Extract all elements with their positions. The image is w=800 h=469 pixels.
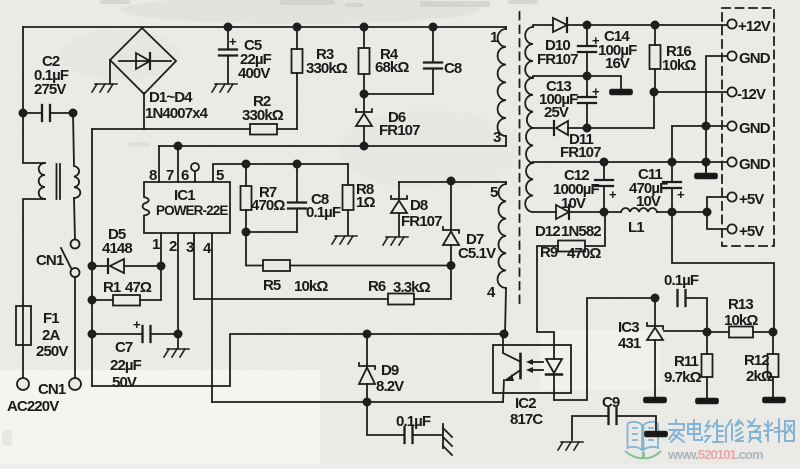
capacitor C14 <box>578 25 637 76</box>
capacitor C7 <box>88 317 181 391</box>
IC IC1 POWER-22E <box>143 182 230 233</box>
wire winding pin5 line <box>399 177 506 184</box>
char liao <box>764 419 784 442</box>
diode D5 <box>88 226 164 273</box>
capacitor C5 <box>219 23 272 84</box>
wire left AC line lower <box>23 199 45 378</box>
watermark logo <box>625 419 794 462</box>
diode D11 <box>533 121 654 161</box>
char wei <box>705 420 723 442</box>
resistor R6 <box>194 266 451 305</box>
connector CN1 AC220V terminals <box>7 378 81 415</box>
ground below C7 <box>164 334 189 357</box>
zener D7 <box>443 181 496 269</box>
paper noise <box>2 0 538 446</box>
wire R2 line left <box>92 128 250 130</box>
ground bar below IC3 <box>644 398 666 403</box>
ground bar 12V common <box>610 90 632 95</box>
resistor R1 <box>88 279 161 306</box>
ground below bridge <box>92 60 117 92</box>
wire 12V common tap <box>533 72 621 89</box>
char jia <box>669 420 684 442</box>
capacitor 0.1uF at D9 <box>367 402 441 443</box>
ground below C5 <box>212 84 237 92</box>
capacitor 0.1uF feedback <box>664 272 707 332</box>
wire LED cathode to 431 node <box>554 298 655 400</box>
ground below R8 <box>332 236 357 244</box>
transformer T1 primary winding 5-4 <box>487 182 508 338</box>
transformer T1 primary winding 1-3 <box>490 27 506 146</box>
wire R2 to R3 bottom <box>296 73 298 129</box>
wire GND column <box>702 56 727 173</box>
bridge rectifier D1-D4 <box>110 28 209 122</box>
ground right of 0.1uF <box>443 424 452 455</box>
wire choke to switch <box>74 198 75 240</box>
resistor R4 <box>359 23 410 97</box>
wire drain rail pins 7-8 to transformer pin 3 <box>159 142 506 149</box>
pin 1 <box>152 233 161 300</box>
capacitor C2 <box>19 53 76 121</box>
node 431 cathode <box>651 294 658 301</box>
wire GND2 riser <box>671 126 673 162</box>
transformer T1 secondary winding <box>525 27 533 212</box>
pin 5 <box>213 164 348 184</box>
capacitor C9 <box>572 394 656 440</box>
wire 0V rail <box>533 158 727 165</box>
diode D12 <box>533 205 621 240</box>
capacitor C8 <box>246 160 341 232</box>
ground bar 0V rail <box>695 162 717 178</box>
wire left AC line upper <box>23 27 45 163</box>
resistor R9 <box>537 212 605 359</box>
transformer T0 line filter choke <box>39 163 81 199</box>
diode D6 <box>356 94 420 150</box>
pin 7 <box>166 146 178 184</box>
capacitor C13 <box>539 76 600 128</box>
shunt regulator IC3 431 <box>618 298 707 398</box>
ground bar below R12 <box>763 398 785 403</box>
switch CN1 <box>36 240 80 278</box>
inductor L1 <box>621 208 711 236</box>
wire GND2 to 0V rail <box>672 125 727 127</box>
pin 6 open circle <box>181 163 199 184</box>
ground bar right of C9 <box>645 432 667 437</box>
pin 8 <box>149 146 159 184</box>
optocoupler IC2 817C <box>493 334 571 428</box>
pin 4 <box>203 233 212 402</box>
wire bridge bottom to R2 line <box>143 93 145 129</box>
capacitor C11 <box>629 162 685 212</box>
resistor R3 <box>292 23 348 77</box>
wire aux rail down left <box>91 129 93 386</box>
diode D10 <box>533 18 727 68</box>
ground bar below R11 <box>696 399 718 404</box>
wire primary ground path <box>92 334 504 386</box>
transformer T1 core <box>519 12 521 305</box>
wire +5V terminals column <box>707 197 727 229</box>
wire top rail <box>23 26 506 28</box>
connector output terminal block <box>722 8 774 246</box>
ground below C9 <box>558 442 583 450</box>
diode D8 <box>391 182 442 236</box>
char zi <box>748 419 761 442</box>
resistor R5 <box>246 232 451 295</box>
resistor R7 <box>241 160 286 235</box>
resistor R13 <box>703 296 776 338</box>
wire -12V line <box>650 88 727 128</box>
capacitor C12 <box>553 162 617 212</box>
pin 2 <box>169 233 178 334</box>
char xiu <box>726 420 743 442</box>
resistor R12 <box>744 332 779 398</box>
wire switch to AC terminal <box>74 277 76 378</box>
resistor R11 <box>664 332 713 398</box>
fuse F1 <box>16 306 68 360</box>
char wang <box>785 421 794 441</box>
wire bottom return pin4 to optocoupler emitter <box>212 401 503 403</box>
resistor R16 <box>650 25 697 92</box>
ground below D8 <box>383 237 408 245</box>
char dian <box>688 420 702 440</box>
wire C2 right to choke <box>73 113 74 166</box>
zener D9 <box>359 330 404 405</box>
wire +5V feedback sense <box>672 212 774 332</box>
pin 3 <box>186 233 194 299</box>
capacitor C8 snubber <box>364 23 462 94</box>
resistor R2 <box>242 93 297 135</box>
resistor R8 <box>343 164 376 235</box>
